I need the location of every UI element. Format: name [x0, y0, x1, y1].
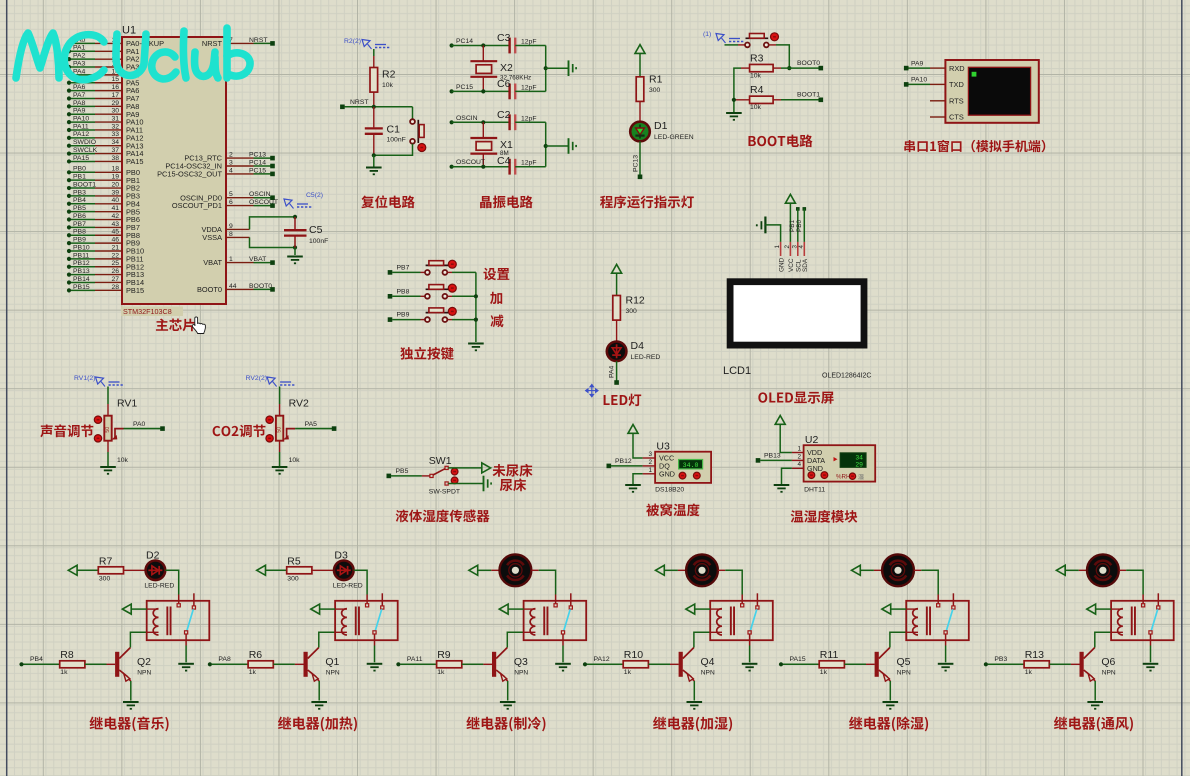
svg-text:串口1窗口（模拟手机端）: 串口1窗口（模拟手机端）: [903, 136, 1054, 155]
svg-text:LED-GREEN: LED-GREEN: [654, 134, 694, 141]
junction X1 top: [481, 120, 485, 124]
wire relay pole to ground: [749, 646, 751, 663]
terminal PA8: [208, 662, 212, 666]
junction C1 bottom: [372, 153, 376, 157]
wire to ground: [373, 155, 375, 167]
wire base: [273, 663, 295, 665]
svg-text:PB9: PB9: [397, 312, 410, 319]
wire left rail R3-R4: [734, 68, 741, 112]
U1 pin PB3 (39): [67, 194, 71, 198]
svg-text:SDA: SDA: [802, 258, 809, 272]
wire collector to relay coil: [507, 632, 523, 647]
ground reset circuit: [366, 167, 382, 169]
svg-text:主芯片: 主芯片: [155, 314, 196, 334]
svg-text:10k: 10k: [750, 73, 762, 80]
wire throw2 to ground: [448, 483, 483, 485]
IC U1 STM32F103C8 main chip: [121, 25, 226, 317]
U1 pin PA6 (16): [67, 89, 71, 93]
wire base: [462, 663, 484, 665]
svg-text:26: 26: [111, 268, 119, 275]
crystal X2 32.768KHz: [470, 46, 531, 92]
svg-text:43: 43: [111, 221, 119, 228]
virtual terminal instrument: [945, 60, 1038, 123]
wire coil power: [695, 608, 711, 610]
svg-text:C2: C2: [497, 109, 511, 121]
svg-text:300: 300: [99, 575, 111, 582]
svg-text:液体湿度传感器: 液体湿度传感器: [395, 505, 490, 525]
wire PB9 to button: [392, 319, 420, 321]
svg-text:44: 44: [229, 283, 237, 290]
svg-text:OSCOUT: OSCOUT: [456, 159, 485, 166]
svg-text:R2: R2: [382, 69, 396, 81]
switch toggle red dots: [451, 468, 458, 475]
wire PA11 to R9: [400, 663, 436, 665]
svg-text:2: 2: [648, 459, 652, 466]
svg-text:RV1(2): RV1(2): [74, 375, 95, 382]
svg-text:50: 50: [105, 427, 111, 433]
transistor Q4 NPN: [679, 648, 715, 682]
wire GND U3: [643, 473, 656, 475]
LED D2 LED-RED: [144, 549, 174, 589]
terminal PA4: [614, 380, 619, 385]
svg-text:PB10: PB10: [73, 244, 90, 251]
terminal PB7: [388, 270, 393, 275]
svg-text:21: 21: [111, 244, 119, 251]
svg-text:PB13: PB13: [764, 453, 781, 460]
svg-text:PC14: PC14: [456, 38, 473, 45]
terminal PA10: [904, 82, 909, 87]
wire collector to relay coil: [130, 632, 146, 647]
wire power to resistor: [77, 569, 98, 571]
svg-text:PA12: PA12: [73, 131, 89, 138]
svg-text:PA15: PA15: [73, 155, 89, 162]
svg-text:PC13: PC13: [249, 152, 266, 159]
wire R4 to BOOT1 terminal: [781, 99, 819, 101]
svg-text:NPN: NPN: [1102, 670, 1116, 677]
svg-text:PB12: PB12: [73, 260, 90, 267]
wire motor to relay: [718, 569, 725, 571]
svg-text:2: 2: [797, 453, 801, 460]
svg-text:29: 29: [111, 100, 119, 107]
svg-text:1: 1: [648, 467, 652, 474]
button toggle red dot: [771, 33, 779, 41]
button toggle red dot: [418, 144, 426, 152]
U1 pin PA8 (29): [67, 104, 71, 108]
wire coil power: [508, 608, 523, 610]
ground RV1: [100, 466, 116, 468]
svg-text:PB5: PB5: [73, 205, 86, 212]
terminal PB3: [984, 662, 988, 666]
wire LED to relay: [354, 570, 368, 594]
svg-text:VBAT: VBAT: [203, 258, 222, 267]
svg-text:LED灯: LED灯: [602, 389, 642, 409]
motor M2: [686, 554, 718, 586]
ground U3: [625, 484, 641, 486]
junction X2 bottom: [481, 89, 485, 93]
wire PB3 to R13: [988, 663, 1024, 665]
wire PB13 to DATA: [760, 459, 792, 461]
svg-text:PB7: PB7: [73, 221, 86, 228]
svg-text:4: 4: [229, 167, 233, 174]
resistor R2 10k: [370, 56, 396, 107]
junction right rail X2: [544, 66, 548, 70]
svg-text:5: 5: [229, 191, 233, 198]
pot wiper: [283, 435, 289, 440]
power arrow (left) coil: [499, 604, 508, 614]
svg-text:31: 31: [111, 116, 119, 123]
svg-text:PC13: PC13: [633, 155, 640, 172]
svg-text:设置: 设置: [483, 263, 510, 283]
svg-text:继电器(制冷): 继电器(制冷): [466, 714, 547, 734]
junction PB9 bus: [474, 318, 478, 322]
svg-text:RXD: RXD: [949, 64, 965, 73]
svg-text:OSCIN: OSCIN: [456, 115, 478, 122]
U1 pin PA1 (11): [67, 49, 71, 53]
terminal PB9: [388, 317, 393, 322]
wire PA15 to R11: [783, 663, 819, 665]
svg-text:Q5: Q5: [897, 656, 911, 668]
ground relay pole: [178, 663, 194, 665]
ground emitter Q6: [1087, 701, 1103, 703]
wire D1 to PC13 terminal: [639, 141, 641, 176]
svg-text:湿: 湿: [858, 472, 864, 481]
svg-text:继电器(音乐): 继电器(音乐): [89, 714, 170, 734]
wire VCC pin: [789, 203, 791, 242]
ground BOOT divider: [726, 112, 742, 114]
capacitor C4 12pF: [497, 155, 537, 175]
svg-text:45: 45: [111, 229, 119, 236]
wire R1 to D1: [639, 101, 641, 121]
svg-text:U2: U2: [805, 434, 819, 446]
wire emitter to ground: [889, 681, 891, 701]
capacitor C2 12pF: [497, 109, 537, 130]
MCUclub watermark logo: [16, 28, 250, 80]
wire C6 to right rail: [515, 90, 546, 92]
wire flag to RV1: [107, 387, 109, 405]
svg-text:R1: R1: [649, 74, 663, 86]
U1 pin PB4 (40): [67, 202, 71, 206]
transistor Q1 NPN: [304, 648, 340, 682]
svg-text:R6: R6: [249, 649, 263, 661]
svg-text:R12: R12: [626, 295, 645, 307]
svg-text:34: 34: [111, 139, 119, 146]
wire power to VCC U3: [633, 433, 643, 458]
wire relay pole to ground: [374, 646, 376, 663]
svg-text:Q4: Q4: [701, 656, 715, 668]
wire base: [648, 663, 670, 665]
svg-text:D1: D1: [654, 120, 668, 132]
svg-text:R10: R10: [624, 649, 643, 661]
capacitor C3 12pF: [497, 32, 537, 53]
wire flag to boot button: [725, 44, 739, 46]
U1 pin PB0 (18): [67, 170, 71, 174]
svg-text:PA5: PA5: [305, 421, 318, 428]
svg-text:NRST: NRST: [202, 39, 223, 48]
wire PA12 to R10: [587, 663, 623, 665]
svg-text:PB4: PB4: [30, 656, 43, 663]
ground relay pole: [367, 663, 383, 665]
svg-text:LED-RED: LED-RED: [631, 354, 661, 361]
svg-text:6: 6: [229, 199, 233, 206]
wire emitter to ground: [507, 681, 509, 701]
svg-text:12pF: 12pF: [521, 160, 537, 167]
svg-text:1: 1: [229, 256, 233, 263]
svg-text:12pF: 12pF: [521, 85, 537, 92]
wire collector to relay coil: [694, 632, 710, 647]
svg-text:29: 29: [855, 462, 863, 469]
ground (rotated) X1: [568, 138, 570, 154]
svg-text:41: 41: [111, 205, 119, 212]
svg-text:PB0: PB0: [796, 219, 803, 232]
svg-text:PB12: PB12: [615, 458, 632, 465]
wire motor to relay: [914, 569, 921, 571]
power arrow D1 branch: [635, 45, 645, 54]
svg-text:12pF: 12pF: [521, 115, 537, 122]
power arrow (left) coil: [1087, 604, 1096, 614]
crystal X1 8M: [470, 122, 513, 166]
power arrow U2: [775, 416, 785, 425]
svg-text:晶振电路: 晶振电路: [479, 191, 533, 211]
wire button to bus: [447, 271, 452, 273]
terminal PB8: [388, 294, 393, 299]
wire button to R3 node: [769, 44, 776, 46]
node PB0 SDA wire: [803, 207, 807, 211]
wire pot to ground: [107, 452, 109, 466]
ground emitter Q2: [123, 701, 139, 703]
terminal BOOT0: [819, 66, 824, 71]
svg-text:LCD1: LCD1: [723, 365, 751, 377]
transistor Q5 NPN: [875, 648, 911, 682]
svg-text:(1): (1): [703, 31, 711, 38]
svg-text:NPN: NPN: [326, 670, 340, 677]
wire power to R1: [639, 53, 641, 76]
ground OLED: [757, 217, 766, 234]
wire relay pole to ground: [945, 646, 947, 663]
wire LED to relay: [165, 570, 179, 594]
terminal PA0: [160, 426, 165, 431]
push button PB9: [425, 308, 448, 322]
svg-text:300: 300: [626, 308, 638, 315]
svg-text:C5: C5: [309, 224, 323, 236]
U1 pin PB5 (41): [67, 210, 71, 214]
svg-text:加: 加: [490, 287, 504, 307]
U1 pin PA10 (31): [67, 120, 71, 124]
svg-text:1k: 1k: [60, 669, 68, 676]
svg-text:NPN: NPN: [701, 670, 715, 677]
U2 adjust buttons: [808, 472, 815, 479]
resistor R13 1k: [1024, 649, 1049, 676]
wire relay pole to ground: [1150, 646, 1152, 663]
svg-text:PC15-OSC32_OUT: PC15-OSC32_OUT: [157, 170, 222, 179]
mouse hand cursor: [192, 317, 205, 334]
wire collector to relay coil: [890, 632, 906, 647]
svg-text:27: 27: [111, 276, 119, 283]
svg-text:PA9: PA9: [73, 108, 86, 115]
LCD1 pins 1-4: [774, 242, 805, 256]
svg-text:继电器(加湿): 继电器(加湿): [653, 714, 734, 734]
svg-text:32: 32: [111, 123, 119, 130]
svg-text:NRST: NRST: [249, 37, 268, 44]
terminal PC13: [638, 175, 643, 180]
terminal PB13: [756, 458, 761, 463]
motor M3: [882, 554, 914, 586]
svg-text:17: 17: [111, 92, 119, 99]
wire wiper to PA0: [124, 428, 161, 430]
junction node C5 top: [293, 215, 297, 219]
net label NRST terminal: [340, 105, 345, 110]
wire R12 to D4: [616, 320, 618, 342]
power arrow (left) motor branch: [1056, 565, 1065, 575]
wire R7 to D2: [124, 569, 146, 571]
wire power to R12: [616, 273, 618, 295]
svg-text:BOOT1: BOOT1: [73, 181, 96, 188]
svg-text:R4: R4: [750, 84, 764, 96]
wire power to motor: [478, 569, 492, 571]
wire coil power: [131, 608, 147, 610]
svg-text:继电器(除湿): 继电器(除湿): [849, 714, 930, 734]
svg-text:RV2: RV2: [289, 398, 309, 410]
resistor R7 300: [98, 555, 123, 582]
wire power to motor: [664, 569, 678, 571]
motor M1: [500, 554, 532, 586]
svg-text:19: 19: [111, 174, 119, 181]
svg-text:1k: 1k: [624, 669, 632, 676]
svg-text:100nF: 100nF: [387, 137, 406, 144]
svg-text:PB1: PB1: [73, 174, 86, 181]
svg-text:50: 50: [276, 427, 282, 433]
svg-text:R2(2): R2(2): [344, 38, 361, 45]
ground U2: [774, 484, 790, 486]
svg-text:PB5: PB5: [396, 468, 409, 475]
U1 pin PB6 (42): [67, 217, 71, 221]
wire power to motor: [1065, 569, 1079, 571]
wire C5 to ground: [294, 248, 296, 256]
svg-text:D4: D4: [631, 340, 645, 352]
junction R4 left: [732, 98, 736, 102]
junction node C5 bottom: [293, 245, 297, 249]
svg-text:PA6: PA6: [73, 84, 86, 91]
terminal PA12: [583, 662, 587, 666]
svg-text:CTS: CTS: [949, 113, 964, 122]
resistor R1 300: [636, 74, 662, 102]
svg-text:PB0: PB0: [73, 166, 86, 173]
svg-text:NPN: NPN: [897, 670, 911, 677]
svg-text:2: 2: [229, 152, 233, 159]
transistor Q6 NPN: [1080, 648, 1116, 682]
svg-text:D2: D2: [146, 549, 160, 561]
svg-text:BOOT0: BOOT0: [249, 283, 272, 290]
svg-text:1: 1: [774, 245, 781, 249]
LED D3 LED-RED: [333, 549, 363, 589]
ground relay pole: [938, 663, 954, 665]
wire R3 to BOOT0 terminal: [781, 67, 819, 69]
svg-text:4: 4: [797, 461, 801, 468]
wire base: [844, 663, 866, 665]
svg-text:33: 33: [111, 131, 119, 138]
wire collector to relay coil: [319, 632, 335, 647]
wire PA8 to R6: [212, 663, 248, 665]
svg-text:SW-SPDT: SW-SPDT: [429, 489, 460, 496]
svg-text:BOOT0: BOOT0: [197, 285, 222, 294]
right rail X2: [545, 46, 547, 92]
svg-text:C3: C3: [497, 32, 511, 44]
svg-text:被窝温度: 被窝温度: [646, 499, 700, 519]
svg-text:SW1: SW1: [429, 455, 452, 467]
junction X1 bottom: [481, 165, 485, 169]
svg-text:DHT11: DHT11: [804, 487, 825, 494]
svg-text:U1: U1: [122, 25, 136, 37]
U1 pin PA5 (15): [67, 81, 71, 85]
svg-text:R7: R7: [99, 555, 113, 567]
wire PB8 to button: [392, 295, 420, 297]
svg-text:PA12: PA12: [594, 656, 610, 663]
svg-text:VCC: VCC: [788, 258, 795, 272]
U1 pin PB7 (43): [67, 225, 71, 229]
push button BOOT: [745, 34, 769, 48]
svg-text:X1: X1: [500, 139, 513, 151]
power arrow 未尿床: [482, 463, 491, 473]
svg-text:R11: R11: [820, 649, 839, 661]
resistor R9 1k: [437, 649, 462, 676]
svg-text:8: 8: [229, 231, 233, 238]
svg-text:BOOT1: BOOT1: [797, 92, 820, 99]
svg-text:PA8: PA8: [73, 100, 86, 107]
svg-text:温湿度模块: 温湿度模块: [790, 506, 858, 526]
svg-text:PA10: PA10: [73, 116, 89, 123]
svg-text:BOOT电路: BOOT电路: [747, 130, 813, 150]
svg-text:GND: GND: [659, 470, 675, 479]
svg-text:PB8: PB8: [397, 288, 410, 295]
U1 pin PA12 (33): [67, 136, 71, 140]
svg-text:OSCOUT_PD1: OSCOUT_PD1: [172, 201, 222, 210]
U1 pin PA9 (30): [67, 112, 71, 116]
svg-text:PB7: PB7: [397, 265, 410, 272]
svg-text:D3: D3: [334, 549, 348, 561]
resistor R11 1k: [819, 649, 844, 676]
svg-text:3: 3: [229, 159, 233, 166]
power arrow (left) coil: [122, 604, 131, 614]
ground relay pole: [1143, 663, 1159, 665]
wire GND U2: [792, 467, 804, 469]
svg-text:%RH: %RH: [836, 473, 850, 480]
sensor U3 DS18B20: [648, 441, 711, 494]
U3 adjust buttons: [679, 472, 686, 479]
resistor R3 10k: [741, 53, 781, 80]
svg-text:PB6: PB6: [73, 213, 86, 220]
node PC15 wire: [450, 89, 454, 93]
transistor Q3 NPN: [492, 648, 528, 682]
resistor R10 1k: [623, 649, 648, 676]
wire relay pole to ground: [185, 646, 187, 663]
svg-text:1k: 1k: [1025, 669, 1033, 676]
power arrow (left) R5: [257, 565, 266, 575]
power arrow (left) R7: [68, 565, 77, 575]
wire PA9 to RXD: [908, 67, 930, 69]
ground emitter Q4: [687, 701, 703, 703]
power arrow LED branch: [612, 264, 622, 273]
LCD1 pin labels GND VCC SCL SDA: [778, 257, 809, 272]
wire VSSA to C5 bottom node: [250, 237, 296, 247]
svg-text:SWCLK: SWCLK: [73, 147, 98, 154]
svg-text:PB15: PB15: [126, 286, 144, 295]
pin CTS stub: [930, 116, 945, 118]
svg-text:PC15: PC15: [456, 84, 473, 91]
ground relay pole: [742, 663, 758, 665]
svg-text:PA10: PA10: [911, 77, 927, 84]
svg-text:2: 2: [784, 245, 791, 249]
svg-text:Q1: Q1: [325, 656, 339, 668]
U1 internal pin names left: [126, 47, 144, 295]
